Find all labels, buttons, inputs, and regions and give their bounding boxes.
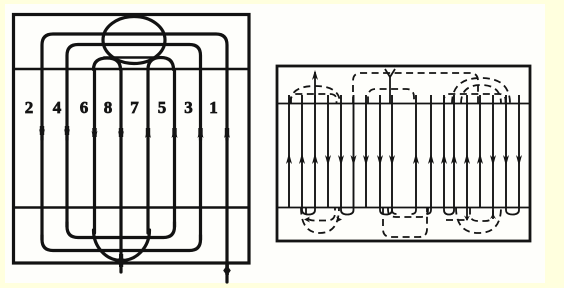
svg-text:2: 2 bbox=[25, 98, 34, 117]
svg-text:8: 8 bbox=[104, 98, 113, 117]
svg-text:5: 5 bbox=[158, 98, 167, 117]
svg-text:1: 1 bbox=[209, 98, 218, 117]
svg-text:6: 6 bbox=[80, 98, 89, 117]
svg-text:4: 4 bbox=[53, 98, 62, 117]
svg-text:3: 3 bbox=[184, 98, 193, 117]
svg-text:7: 7 bbox=[130, 98, 139, 117]
